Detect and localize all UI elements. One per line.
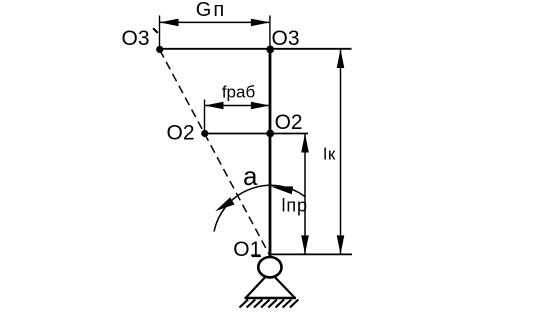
arrow arc right [270, 183, 293, 195]
angle arc a [214, 185, 305, 231]
dimension Gп line [160, 21, 270, 23]
pivot base line [245, 297, 297, 300]
node O3` [156, 46, 163, 53]
arrow arc left [213, 197, 234, 215]
dimension fраб line [205, 105, 270, 107]
wire: dashed tilted lever O1-O3` [160, 50, 270, 255]
node O2` [201, 130, 208, 137]
svg-text:O1: O1 [233, 238, 261, 261]
wire: lever vertical line O1-O3 [269, 50, 272, 257]
wire: horizontal line at O2 level [205, 133, 309, 135]
svg-text:lк: lк [323, 145, 336, 164]
wire: horizontal line at O1 level [270, 253, 352, 255]
arrow fраб left [205, 102, 224, 110]
svg-text:O2: O2 [167, 122, 195, 145]
dimension Gп extension line left [159, 16, 161, 47]
arrow lк bottom [337, 235, 345, 254]
svg-text:O3: O3 [272, 27, 300, 50]
wire: horizontal line at O3 level [160, 48, 352, 50]
node O2 [266, 130, 274, 138]
node O3 [266, 46, 274, 54]
svg-text:a: a [243, 161, 258, 191]
svg-text:O3: O3 [122, 27, 150, 50]
svg-text:fраб: fраб [222, 83, 256, 102]
dimension fраб extension line [204, 100, 206, 132]
dimension Gп extension line right [269, 16, 271, 46]
svg-text:O2: O2 [275, 111, 303, 134]
pivot triangle [246, 272, 295, 298]
pivot circle O1 [258, 257, 281, 277]
dimension lк line [340, 49, 342, 254]
arrow lпр bottom [301, 235, 309, 254]
ground hatching [240, 300, 299, 308]
arrow lпр top [301, 134, 309, 153]
arrow Gп right [251, 19, 270, 27]
arrow fраб right [251, 102, 270, 110]
arrow lк top [337, 49, 345, 68]
arrow Gп left [160, 19, 179, 27]
svg-text:lпр: lпр [282, 195, 308, 215]
svg-text:Gп: Gп [196, 0, 226, 21]
dimension lпр line [304, 134, 306, 255]
